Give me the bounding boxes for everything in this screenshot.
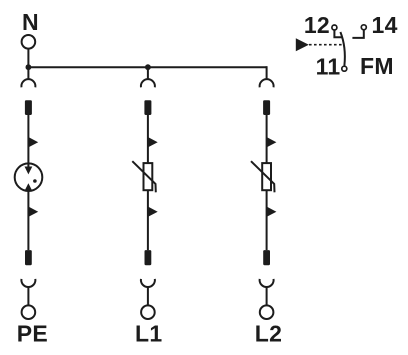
terminal PE bbox=[22, 305, 36, 319]
svg-text:PE: PE bbox=[17, 320, 48, 346]
svg-text:L2: L2 bbox=[255, 320, 282, 346]
wire branch2 upper bbox=[147, 115, 149, 163]
switch lever FM bbox=[340, 32, 344, 66]
contact pin 12 circle bbox=[332, 25, 337, 30]
wire branch1 stem bbox=[27, 287, 29, 306]
svg-text:12: 12 bbox=[304, 12, 330, 38]
disconnect bar branch2 top bbox=[144, 100, 151, 115]
contact pin 14 circle bbox=[361, 25, 366, 30]
wire branch1 stub bbox=[27, 67, 29, 79]
plug connector branch1 top bbox=[21, 79, 35, 87]
svg-text:N: N bbox=[22, 9, 39, 35]
contact pin 12 terminal bbox=[334, 30, 342, 37]
terminal L1 bbox=[141, 305, 155, 319]
wire branch1 upper bbox=[27, 115, 29, 163]
junction node 1 bbox=[26, 64, 32, 70]
svg-text:11: 11 bbox=[316, 53, 341, 79]
plug connector branch3 top bbox=[260, 79, 274, 87]
disconnect bar branch1 bottom bbox=[25, 250, 32, 265]
arrow branch1 upper bbox=[28, 137, 38, 148]
arrow branch3 upper bbox=[266, 137, 276, 148]
spark gap GDT circle bbox=[15, 163, 43, 191]
plug connector branch2 top bbox=[141, 79, 155, 87]
varistor branch2 diagonal bbox=[132, 161, 156, 192]
disconnect bar branch2 bottom bbox=[145, 250, 152, 265]
contact pin 11 circle bbox=[342, 66, 347, 71]
disconnect bar branch1 top bbox=[25, 100, 32, 115]
wire branch1 lower bbox=[27, 191, 29, 250]
svg-text:FM: FM bbox=[360, 53, 394, 79]
svg-text:14: 14 bbox=[372, 12, 398, 38]
arrow branch1 lower bbox=[28, 206, 38, 217]
GDT bottom electrode bbox=[25, 183, 33, 191]
wire branch2 stub bbox=[147, 67, 149, 79]
GDT gas dot bbox=[33, 179, 37, 183]
disconnect bar branch3 bottom bbox=[263, 250, 270, 265]
wire bus bbox=[28, 66, 266, 68]
junction node 2 bbox=[145, 64, 151, 70]
GDT top electrode bbox=[27, 163, 29, 167]
plug connector branch3 bottom bbox=[260, 279, 274, 287]
wire branch3 upper bbox=[266, 115, 268, 163]
wire N stem bbox=[27, 49, 29, 68]
plug connector branch2 bottom bbox=[141, 279, 155, 287]
disconnect bar branch3 top bbox=[263, 100, 270, 115]
actuator arrow bbox=[296, 38, 309, 51]
wire branch2 lower bbox=[147, 190, 149, 250]
varistor branch3 body bbox=[262, 163, 271, 190]
varistor branch2 body bbox=[144, 163, 153, 190]
wire branch3 lower bbox=[266, 190, 268, 250]
wire branch3 stub bbox=[266, 66, 268, 79]
svg-text:L1: L1 bbox=[135, 320, 162, 346]
arrow branch2 lower bbox=[148, 206, 158, 217]
terminal L2 bbox=[260, 305, 274, 319]
arrow branch2 upper bbox=[148, 137, 158, 148]
arrow branch3 lower bbox=[266, 206, 276, 217]
plug connector branch1 bottom bbox=[21, 279, 35, 287]
varistor branch3 diagonal bbox=[251, 161, 275, 192]
terminal N bbox=[22, 35, 36, 49]
contact pin 14 terminal bbox=[352, 30, 363, 38]
wire branch2 stem bbox=[147, 287, 149, 306]
wire branch3 stem bbox=[266, 287, 268, 306]
actuator dashed link bbox=[309, 44, 343, 46]
